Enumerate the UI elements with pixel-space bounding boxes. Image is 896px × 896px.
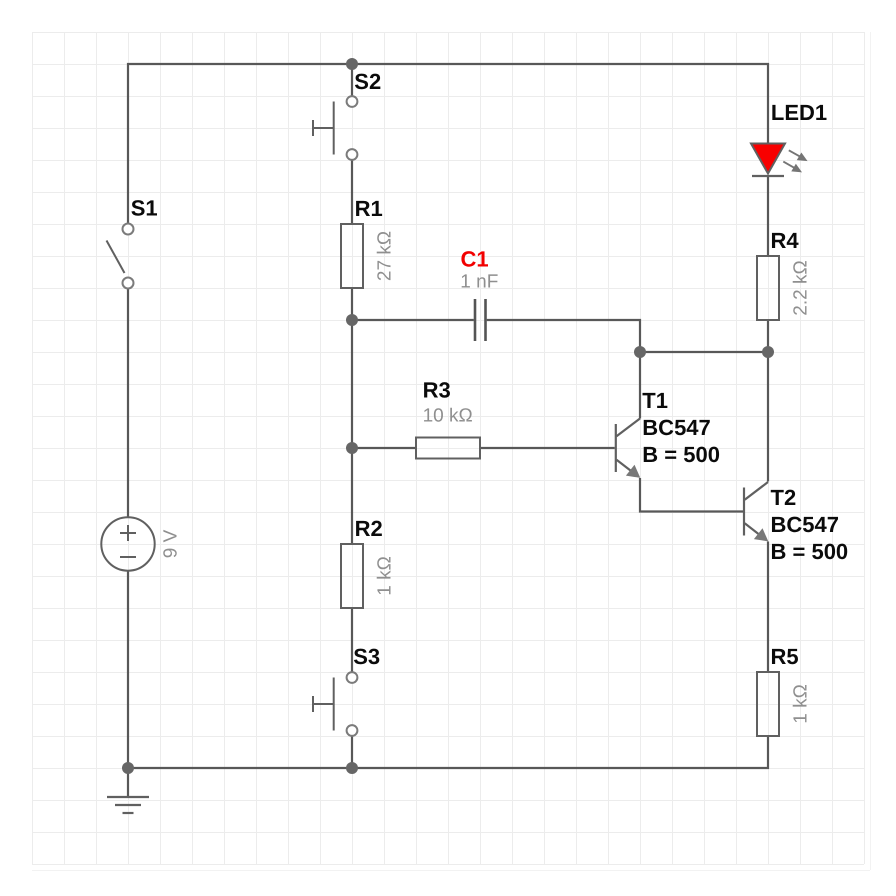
svg-text:S2: S2 xyxy=(354,69,381,94)
svg-text:1 nF: 1 nF xyxy=(460,272,498,293)
svg-text:BC547: BC547 xyxy=(642,415,710,440)
svg-text:R3: R3 xyxy=(423,378,451,403)
svg-text:1 kΩ: 1 kΩ xyxy=(791,684,812,724)
svg-text:BC547: BC547 xyxy=(771,512,839,537)
svg-text:2.2 kΩ: 2.2 kΩ xyxy=(791,260,812,315)
svg-text:9 V: 9 V xyxy=(161,529,182,558)
svg-text:B = 500: B = 500 xyxy=(642,442,720,467)
svg-text:T2: T2 xyxy=(771,485,797,510)
svg-text:R1: R1 xyxy=(355,196,383,221)
svg-text:27 kΩ: 27 kΩ xyxy=(375,231,396,281)
svg-text:C1: C1 xyxy=(461,247,489,272)
svg-text:S1: S1 xyxy=(131,195,158,220)
svg-text:S3: S3 xyxy=(353,644,380,669)
svg-text:LED1: LED1 xyxy=(771,100,827,125)
svg-text:T1: T1 xyxy=(642,388,668,413)
svg-text:R4: R4 xyxy=(771,228,800,253)
svg-text:R5: R5 xyxy=(771,644,799,669)
svg-text:B = 500: B = 500 xyxy=(771,539,849,564)
svg-text:R2: R2 xyxy=(355,516,383,541)
svg-text:1 kΩ: 1 kΩ xyxy=(375,556,396,596)
svg-text:10 kΩ: 10 kΩ xyxy=(423,405,473,426)
